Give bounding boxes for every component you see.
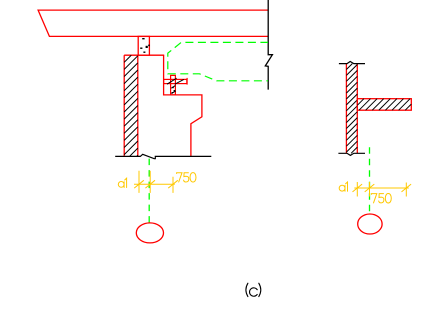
- ground line with break: [115, 154, 211, 158]
- right dim extension line 1: [356, 182, 358, 197]
- right dim text 750: [371, 194, 391, 203]
- left dim extension line 1: [138, 171, 140, 193]
- bracket end plate: [186, 78, 188, 85]
- bracket arm: [164, 79, 187, 83]
- bracket stem: [171, 75, 176, 95]
- bracket hatch marks: [167, 78, 184, 93]
- right dim ticks: [353, 184, 412, 192]
- left dim extension line 3: [172, 177, 174, 193]
- left dim text 750: [177, 173, 196, 182]
- right column edges: [346, 64, 357, 154]
- right dim text a1: [339, 182, 347, 191]
- right detail ellipse: [358, 214, 382, 234]
- right dim extension line 3: [405, 183, 407, 197]
- left detail ellipse: [136, 223, 163, 243]
- right beam outline: [357, 99, 411, 111]
- double-tee beam outline: [38, 10, 268, 36]
- wall column edges: [124, 55, 138, 156]
- wall column hatch: [124, 55, 138, 156]
- right column hatch: [346, 64, 357, 154]
- left dim extension line 2: [149, 171, 151, 193]
- right dim line: [354, 187, 409, 189]
- right dim extension line 2: [369, 182, 371, 197]
- left dim ticks: [134, 180, 178, 188]
- right center line (green dashed): [369, 147, 371, 214]
- pad speckles: [140, 38, 150, 53]
- caption (c): [246, 283, 261, 296]
- right column top cap with break: [339, 62, 365, 64]
- right break line (cut): [265, 0, 272, 90]
- corbel seat line: [124, 54, 164, 56]
- right column bottom cap with break: [338, 153, 365, 155]
- right beam hatch: [357, 99, 411, 111]
- left dim text a1: [118, 178, 126, 187]
- hidden panel outline (green dashed): [168, 42, 268, 80]
- bracket speckles: [172, 87, 175, 93]
- left center line (green dashed): [148, 159, 150, 223]
- grout bearing pad: [138, 36, 149, 55]
- left dim line: [134, 183, 175, 185]
- column/corbel profile: [164, 55, 202, 156]
